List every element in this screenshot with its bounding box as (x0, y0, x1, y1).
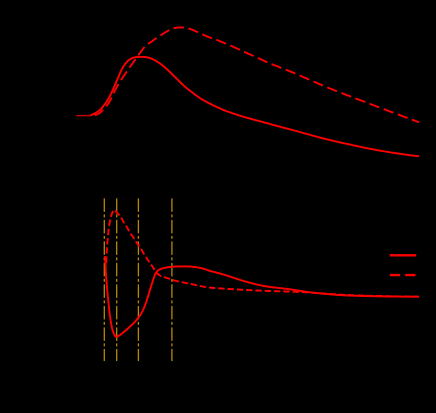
legend dashed line sample (390, 274, 416, 276)
vertical dash-dot marker line 3 (137, 198, 139, 361)
shared flat lead-in segment of both light curves (76, 115, 92, 117)
bottom panel dashed red curve (106, 210, 419, 297)
top panel dashed red light curve (95, 27, 420, 122)
vertical dash-dot marker line 2 (116, 198, 118, 361)
bottom panel solid red curve (105, 256, 419, 337)
vertical dash-dot marker line 1 (103, 198, 105, 361)
legend solid line sample (390, 254, 417, 256)
vertical dash-dot marker line 4 (171, 198, 173, 361)
top panel solid red light curve (91, 57, 420, 156)
